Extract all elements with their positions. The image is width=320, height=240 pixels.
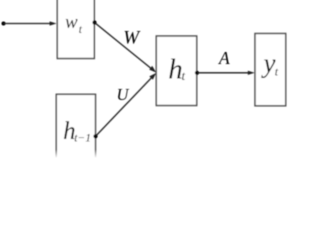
svg-text:y: y [261, 48, 276, 78]
svg-text:W: W [123, 28, 141, 49]
box w_t [57, 0, 94, 59]
wire U [96, 78, 152, 136]
box h_t-1 [56, 94, 95, 166]
wire input arrow [2, 22, 6, 26]
wire W [95, 23, 152, 69]
svg-text:t−1: t−1 [74, 133, 91, 145]
svg-text:U: U [117, 85, 130, 104]
svg-text:t: t [182, 68, 186, 83]
svg-text:A: A [218, 48, 230, 68]
fade at bottom of h_t-1 box [50, 150, 102, 159]
node on w_t right edge [92, 20, 96, 24]
box y_t [255, 34, 286, 106]
node on h_t-1 right edge [93, 134, 97, 138]
node on h_t right edge [195, 71, 199, 75]
wire A [197, 72, 249, 74]
box h_t [156, 36, 196, 106]
svg-text:w: w [65, 12, 78, 33]
